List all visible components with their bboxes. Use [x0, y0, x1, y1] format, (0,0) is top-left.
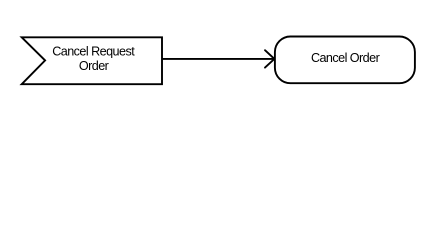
svg-text:Cancel Order: Cancel Order: [311, 51, 380, 65]
arrowhead (open) at rounded box: [265, 50, 274, 67]
rounded rectangle: Cancel Order: [275, 37, 415, 84]
banner shape: Cancel Request Order: [22, 37, 162, 84]
svg-text:Order: Order: [79, 59, 109, 73]
svg-text:Cancel Request: Cancel Request: [52, 44, 135, 58]
wire: connector line from banner to rounded box: [162, 58, 273, 60]
